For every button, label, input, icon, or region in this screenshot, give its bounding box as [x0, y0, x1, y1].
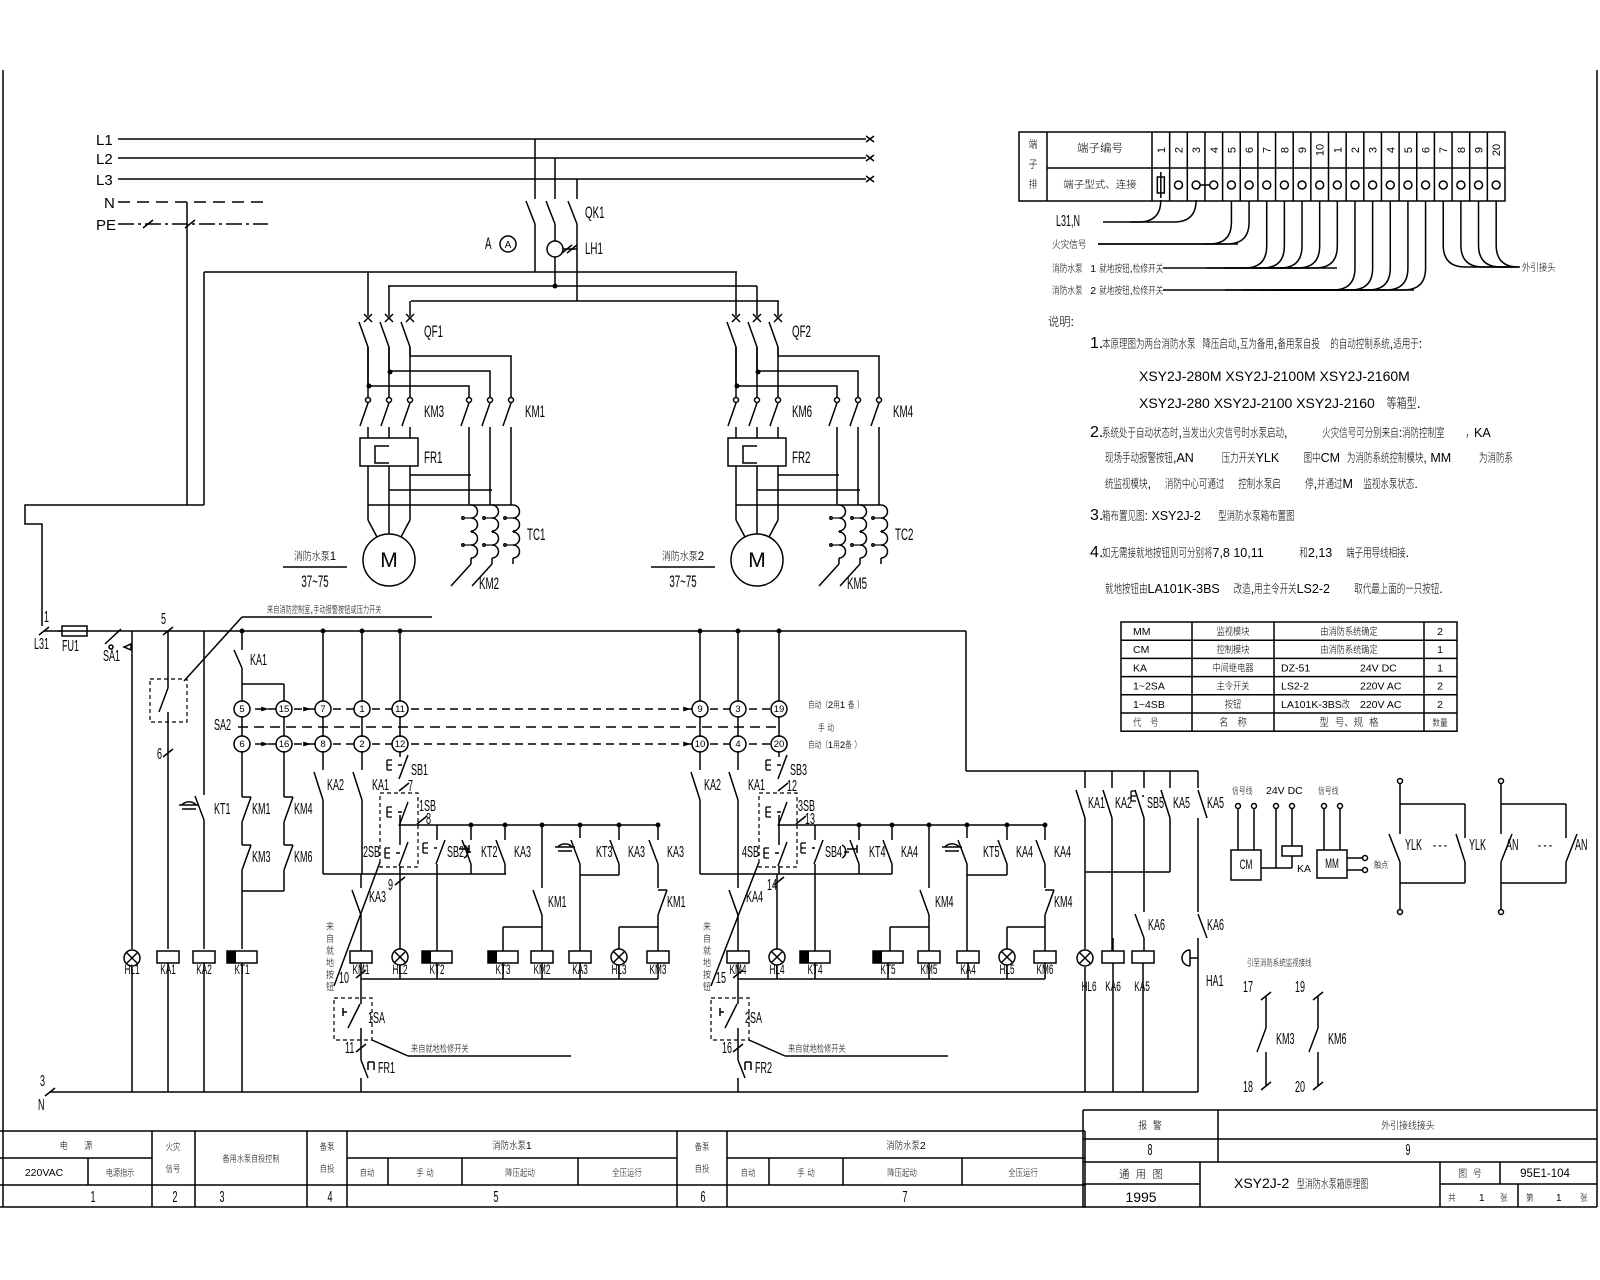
svg-text:KA1: KA1	[250, 652, 267, 669]
svg-text:6: 6	[239, 739, 244, 750]
svg-text:HL1: HL1	[124, 962, 139, 978]
svg-text:KT1: KT1	[234, 962, 249, 978]
svg-text:KT2: KT2	[429, 962, 444, 978]
svg-text:XSY2J-2: XSY2J-2	[1234, 1175, 1289, 1191]
svg-text:7: 7	[1262, 147, 1274, 153]
svg-text:.: .	[1439, 582, 1442, 596]
svg-text:KM4: KM4	[893, 402, 913, 420]
svg-text:1: 1	[359, 704, 364, 715]
svg-text:2: 2	[1350, 147, 1362, 153]
svg-text:A: A	[485, 234, 492, 252]
svg-text:KA3: KA3	[667, 844, 684, 861]
svg-text:KM6: KM6	[294, 849, 312, 866]
svg-text:QK1: QK1	[585, 203, 604, 221]
svg-text:3: 3	[1368, 147, 1380, 153]
svg-text:95E1-104: 95E1-104	[1520, 1168, 1570, 1180]
svg-text:,: ,	[310, 605, 313, 616]
svg-text:KA3: KA3	[628, 844, 645, 861]
svg-text:KM3: KM3	[252, 849, 270, 866]
svg-text:KA2: KA2	[704, 777, 721, 794]
svg-text:HL4: HL4	[769, 962, 784, 978]
svg-text:KM5: KM5	[921, 962, 938, 978]
svg-text:KM1: KM1	[525, 402, 545, 420]
svg-text:1: 1	[330, 551, 336, 563]
svg-text:,: ,	[1314, 477, 1317, 491]
svg-text:KA6: KA6	[1207, 917, 1224, 934]
svg-text:KA4: KA4	[960, 962, 976, 978]
svg-text:, MM: , MM	[1423, 451, 1451, 465]
svg-text:AN: AN	[1575, 837, 1587, 854]
svg-text:37~75: 37~75	[301, 572, 329, 590]
svg-text:KA2: KA2	[1115, 795, 1132, 812]
svg-text:10: 10	[1315, 144, 1327, 156]
svg-text:6: 6	[1421, 147, 1433, 153]
svg-text:HL6: HL6	[1081, 979, 1096, 995]
svg-text:KM4: KM4	[294, 801, 312, 818]
svg-text:4SB: 4SB	[742, 844, 759, 861]
svg-text:4: 4	[1385, 147, 1397, 153]
svg-text:8: 8	[320, 739, 325, 750]
svg-text:- - -: - - -	[1538, 837, 1552, 854]
svg-text:11: 11	[345, 1040, 354, 1057]
svg-text:SA1: SA1	[103, 648, 120, 665]
svg-text:9: 9	[1406, 1142, 1411, 1159]
svg-text:15: 15	[279, 704, 290, 715]
svg-text:LA101K-3BS: LA101K-3BS	[1281, 699, 1342, 711]
svg-text:4.: 4.	[1090, 544, 1103, 561]
svg-text:4: 4	[735, 739, 740, 750]
svg-text:KA4: KA4	[1016, 844, 1033, 861]
svg-text:KM4: KM4	[730, 962, 747, 978]
svg-text:KT5: KT5	[880, 962, 895, 978]
svg-text:,: ,	[1284, 426, 1287, 440]
svg-text:KM3: KM3	[424, 402, 444, 420]
svg-text:,: ,	[1130, 263, 1133, 275]
svg-text:3: 3	[220, 1189, 225, 1206]
svg-text:- - -: - - -	[1433, 837, 1447, 854]
svg-text:,: ,	[1130, 285, 1133, 297]
svg-text:1: 1	[44, 609, 49, 626]
svg-text:KA: KA	[1133, 662, 1147, 674]
svg-text:8: 8	[1456, 147, 1468, 153]
svg-text:TC1: TC1	[527, 525, 545, 543]
svg-text:24V DC: 24V DC	[1360, 662, 1397, 674]
svg-text:3.: 3.	[1090, 507, 1103, 524]
svg-text:220V AC: 220V AC	[1360, 699, 1402, 711]
svg-text:11: 11	[395, 704, 405, 715]
svg-text:2: 2	[1173, 147, 1185, 153]
svg-text:KT3: KT3	[495, 962, 510, 978]
svg-text:9: 9	[1297, 147, 1309, 153]
svg-text:DZ-51: DZ-51	[1281, 662, 1310, 674]
svg-text:18: 18	[1243, 1079, 1253, 1096]
svg-text:KT4: KT4	[807, 962, 822, 978]
svg-text:LH1: LH1	[585, 239, 603, 257]
svg-text:HL2: HL2	[392, 962, 407, 978]
svg-text:6: 6	[157, 746, 162, 763]
svg-text:XSY2J-280M XSY2J-2100M XSY2J: XSY2J-280M XSY2J-2100M XSY2J-2160M	[1139, 368, 1410, 384]
svg-text:HA1: HA1	[1206, 973, 1223, 990]
svg-text:MM: MM	[1133, 626, 1151, 638]
svg-text:2.: 2.	[1090, 424, 1103, 441]
svg-text:20: 20	[1491, 144, 1503, 156]
svg-text:L2: L2	[96, 151, 113, 168]
svg-text:KA1: KA1	[1088, 795, 1105, 812]
svg-text:SA2: SA2	[214, 717, 231, 734]
svg-text:,AN: ,AN	[1173, 451, 1194, 465]
svg-text:2,13: 2,13	[1308, 546, 1332, 560]
svg-text:SB4: SB4	[825, 844, 842, 861]
svg-text:,: ,	[1236, 337, 1239, 351]
svg-text:,: ,	[1148, 477, 1151, 491]
svg-text:2: 2	[920, 1140, 926, 1152]
svg-text:KA3: KA3	[514, 844, 531, 861]
svg-text:16: 16	[279, 739, 290, 750]
svg-text:PE: PE	[96, 217, 116, 234]
svg-text:1: 1	[828, 740, 833, 751]
svg-text:: XSY2J-2: : XSY2J-2	[1145, 509, 1201, 523]
svg-text:YLK: YLK	[1405, 837, 1422, 854]
svg-text:KM4: KM4	[1054, 894, 1072, 911]
svg-text:KA: KA	[1297, 863, 1311, 875]
svg-text:4: 4	[328, 1189, 333, 1206]
svg-text:9: 9	[1474, 147, 1486, 153]
svg-text:KA2: KA2	[327, 777, 344, 794]
svg-text:KM3: KM3	[650, 962, 667, 978]
svg-text:6: 6	[1244, 147, 1256, 153]
svg-text:YLK: YLK	[1256, 451, 1280, 465]
svg-text:9: 9	[697, 704, 702, 715]
svg-text:24V DC: 24V DC	[1266, 785, 1303, 797]
svg-text:XSY2J-280 XSY2J-2100 XSY2J-2: XSY2J-280 XSY2J-2100 XSY2J-2160	[1139, 395, 1375, 411]
svg-text:8: 8	[1279, 147, 1291, 153]
svg-text:1: 1	[1556, 1193, 1562, 1204]
svg-text:KA5: KA5	[1207, 795, 1224, 812]
svg-text:3: 3	[735, 704, 740, 715]
svg-text:15: 15	[716, 970, 726, 987]
svg-text::: :	[1399, 426, 1402, 440]
svg-text:KT5: KT5	[983, 844, 999, 861]
svg-text:KA4: KA4	[746, 889, 763, 906]
svg-text:12: 12	[395, 739, 406, 750]
svg-text:QF1: QF1	[424, 322, 443, 340]
svg-text:1: 1	[1156, 147, 1168, 153]
svg-text:LS2-2: LS2-2	[1281, 681, 1309, 693]
svg-text:7,8 10,11: 7,8 10,11	[1213, 546, 1264, 560]
svg-text:8: 8	[1148, 1142, 1153, 1159]
svg-text:FR2: FR2	[755, 1060, 772, 1077]
svg-text:,: ,	[1390, 337, 1393, 351]
svg-text:1~2SA: 1~2SA	[1133, 681, 1165, 693]
svg-text:.: .	[1414, 477, 1417, 491]
svg-text:FR1: FR1	[378, 1060, 395, 1077]
svg-text:M: M	[748, 549, 766, 572]
svg-text:N: N	[104, 195, 115, 212]
svg-text:1: 1	[1437, 644, 1443, 656]
svg-text:7: 7	[408, 778, 413, 795]
svg-text:KM6: KM6	[792, 402, 812, 420]
svg-text:N: N	[38, 1097, 44, 1114]
svg-text:KA: KA	[1474, 426, 1491, 440]
svg-text:1: 1	[90, 1189, 95, 1206]
svg-text:KM6: KM6	[1037, 962, 1054, 978]
svg-text:12: 12	[787, 778, 797, 795]
svg-text:KM1: KM1	[667, 894, 685, 911]
svg-text:KA2: KA2	[196, 962, 212, 978]
svg-text:7: 7	[320, 704, 325, 715]
svg-text:7: 7	[903, 1189, 908, 1206]
svg-text:1: 1	[1437, 662, 1443, 674]
svg-text:.: .	[1417, 395, 1421, 411]
svg-text:KM5: KM5	[847, 574, 867, 592]
svg-text:KA6: KA6	[1148, 917, 1165, 934]
svg-text:10: 10	[339, 970, 349, 987]
svg-text:2: 2	[840, 740, 845, 751]
svg-text:5: 5	[1226, 147, 1238, 153]
svg-text:1SA: 1SA	[368, 1010, 385, 1027]
svg-text:KA3: KA3	[369, 889, 386, 906]
svg-text:1: 1	[1332, 147, 1344, 153]
svg-text:4: 4	[1209, 147, 1221, 153]
svg-text:CM: CM	[1133, 644, 1149, 656]
svg-text:FU1: FU1	[62, 638, 79, 655]
svg-text:.: .	[1406, 546, 1409, 560]
svg-text:KT2: KT2	[481, 844, 497, 861]
svg-text:3: 3	[1191, 147, 1203, 153]
svg-text:A: A	[505, 240, 512, 251]
svg-text:2: 2	[828, 700, 833, 711]
svg-text:6: 6	[701, 1189, 706, 1206]
svg-text:KM1: KM1	[252, 801, 270, 818]
svg-text:TC2: TC2	[895, 525, 913, 543]
svg-text:2: 2	[698, 551, 704, 563]
svg-text:QF2: QF2	[792, 322, 811, 340]
svg-text:16: 16	[722, 1040, 732, 1057]
svg-text:KA5: KA5	[1173, 795, 1190, 812]
svg-text:10: 10	[695, 739, 706, 750]
svg-text:KA4: KA4	[901, 844, 918, 861]
svg-text:KM4: KM4	[935, 894, 953, 911]
svg-text:37~75: 37~75	[669, 572, 697, 590]
svg-text:7: 7	[1438, 147, 1450, 153]
svg-text:FR2: FR2	[792, 448, 810, 466]
svg-text:KT3: KT3	[596, 844, 612, 861]
svg-text:CM: CM	[1240, 857, 1253, 873]
svg-text:KM2: KM2	[534, 962, 551, 978]
svg-text:2SA: 2SA	[745, 1010, 762, 1027]
svg-text:1.: 1.	[1090, 335, 1103, 352]
svg-text:19: 19	[774, 704, 785, 715]
svg-text:2: 2	[1437, 626, 1443, 638]
svg-text:L1: L1	[96, 132, 113, 149]
svg-text:LA101K-3BS: LA101K-3BS	[1148, 582, 1220, 596]
svg-text:MM: MM	[1325, 856, 1339, 872]
svg-text:2: 2	[173, 1189, 178, 1206]
svg-text:5: 5	[161, 611, 166, 628]
svg-text:FR1: FR1	[424, 448, 442, 466]
svg-text:1: 1	[840, 700, 845, 711]
svg-text::: :	[1071, 315, 1074, 329]
svg-text:M: M	[1343, 477, 1353, 491]
svg-text:1: 1	[1090, 263, 1096, 275]
svg-text:1995: 1995	[1125, 1189, 1156, 1205]
svg-text:9: 9	[388, 877, 393, 894]
svg-text:KM1: KM1	[353, 962, 370, 978]
svg-text:KT4: KT4	[869, 844, 885, 861]
svg-text:KA1: KA1	[160, 962, 176, 978]
svg-text:SB2: SB2	[447, 844, 464, 861]
svg-text:5: 5	[494, 1189, 499, 1206]
svg-text:SB5: SB5	[1147, 795, 1164, 812]
svg-text:3: 3	[40, 1073, 45, 1090]
svg-text:SB3: SB3	[790, 762, 807, 779]
svg-text:KM1: KM1	[548, 894, 566, 911]
svg-text:20: 20	[1295, 1079, 1305, 1096]
svg-text:5: 5	[1403, 147, 1415, 153]
svg-text:,: ,	[1251, 582, 1254, 596]
svg-text:2: 2	[1090, 285, 1096, 297]
svg-text:220VAC: 220VAC	[25, 1167, 64, 1179]
svg-text:2: 2	[1437, 681, 1443, 693]
svg-text:14: 14	[767, 877, 777, 894]
svg-text:HL3: HL3	[611, 962, 626, 978]
svg-text:L31: L31	[34, 636, 49, 653]
svg-text:M: M	[380, 549, 398, 572]
svg-text:HL5: HL5	[999, 962, 1014, 978]
svg-text:2SB: 2SB	[363, 844, 380, 861]
svg-text:,: ,	[1179, 426, 1182, 440]
svg-text:YLK: YLK	[1469, 837, 1486, 854]
svg-text:1: 1	[526, 1140, 532, 1152]
svg-text:17: 17	[1243, 979, 1253, 996]
svg-text:KM6: KM6	[1328, 1031, 1346, 1048]
svg-text:L3: L3	[96, 172, 113, 189]
svg-text:KM3: KM3	[1276, 1031, 1294, 1048]
svg-text:1: 1	[1479, 1193, 1485, 1204]
svg-text:LS2-2: LS2-2	[1297, 582, 1330, 596]
svg-text:L31,N: L31,N	[1056, 213, 1080, 230]
svg-text:KA1: KA1	[372, 777, 389, 794]
svg-text:,: ,	[1274, 337, 1277, 351]
svg-text:2: 2	[359, 739, 364, 750]
svg-text:220V AC: 220V AC	[1360, 681, 1402, 693]
svg-text::: :	[1419, 337, 1422, 351]
svg-text:KA3: KA3	[572, 962, 588, 978]
svg-text:SB1: SB1	[411, 762, 428, 779]
svg-text:KA1: KA1	[748, 777, 765, 794]
svg-text:KA4: KA4	[1054, 844, 1071, 861]
svg-text:KT1: KT1	[214, 801, 230, 818]
svg-text:KM2: KM2	[479, 574, 499, 592]
svg-text:5: 5	[239, 704, 244, 715]
svg-text:KA5: KA5	[1134, 979, 1150, 995]
svg-text:1~4SB: 1~4SB	[1133, 699, 1165, 711]
svg-text:2: 2	[1437, 699, 1443, 711]
svg-text:AN: AN	[1506, 837, 1518, 854]
svg-text:CM: CM	[1321, 451, 1340, 465]
svg-text:19: 19	[1295, 979, 1305, 996]
svg-text:20: 20	[774, 739, 785, 750]
